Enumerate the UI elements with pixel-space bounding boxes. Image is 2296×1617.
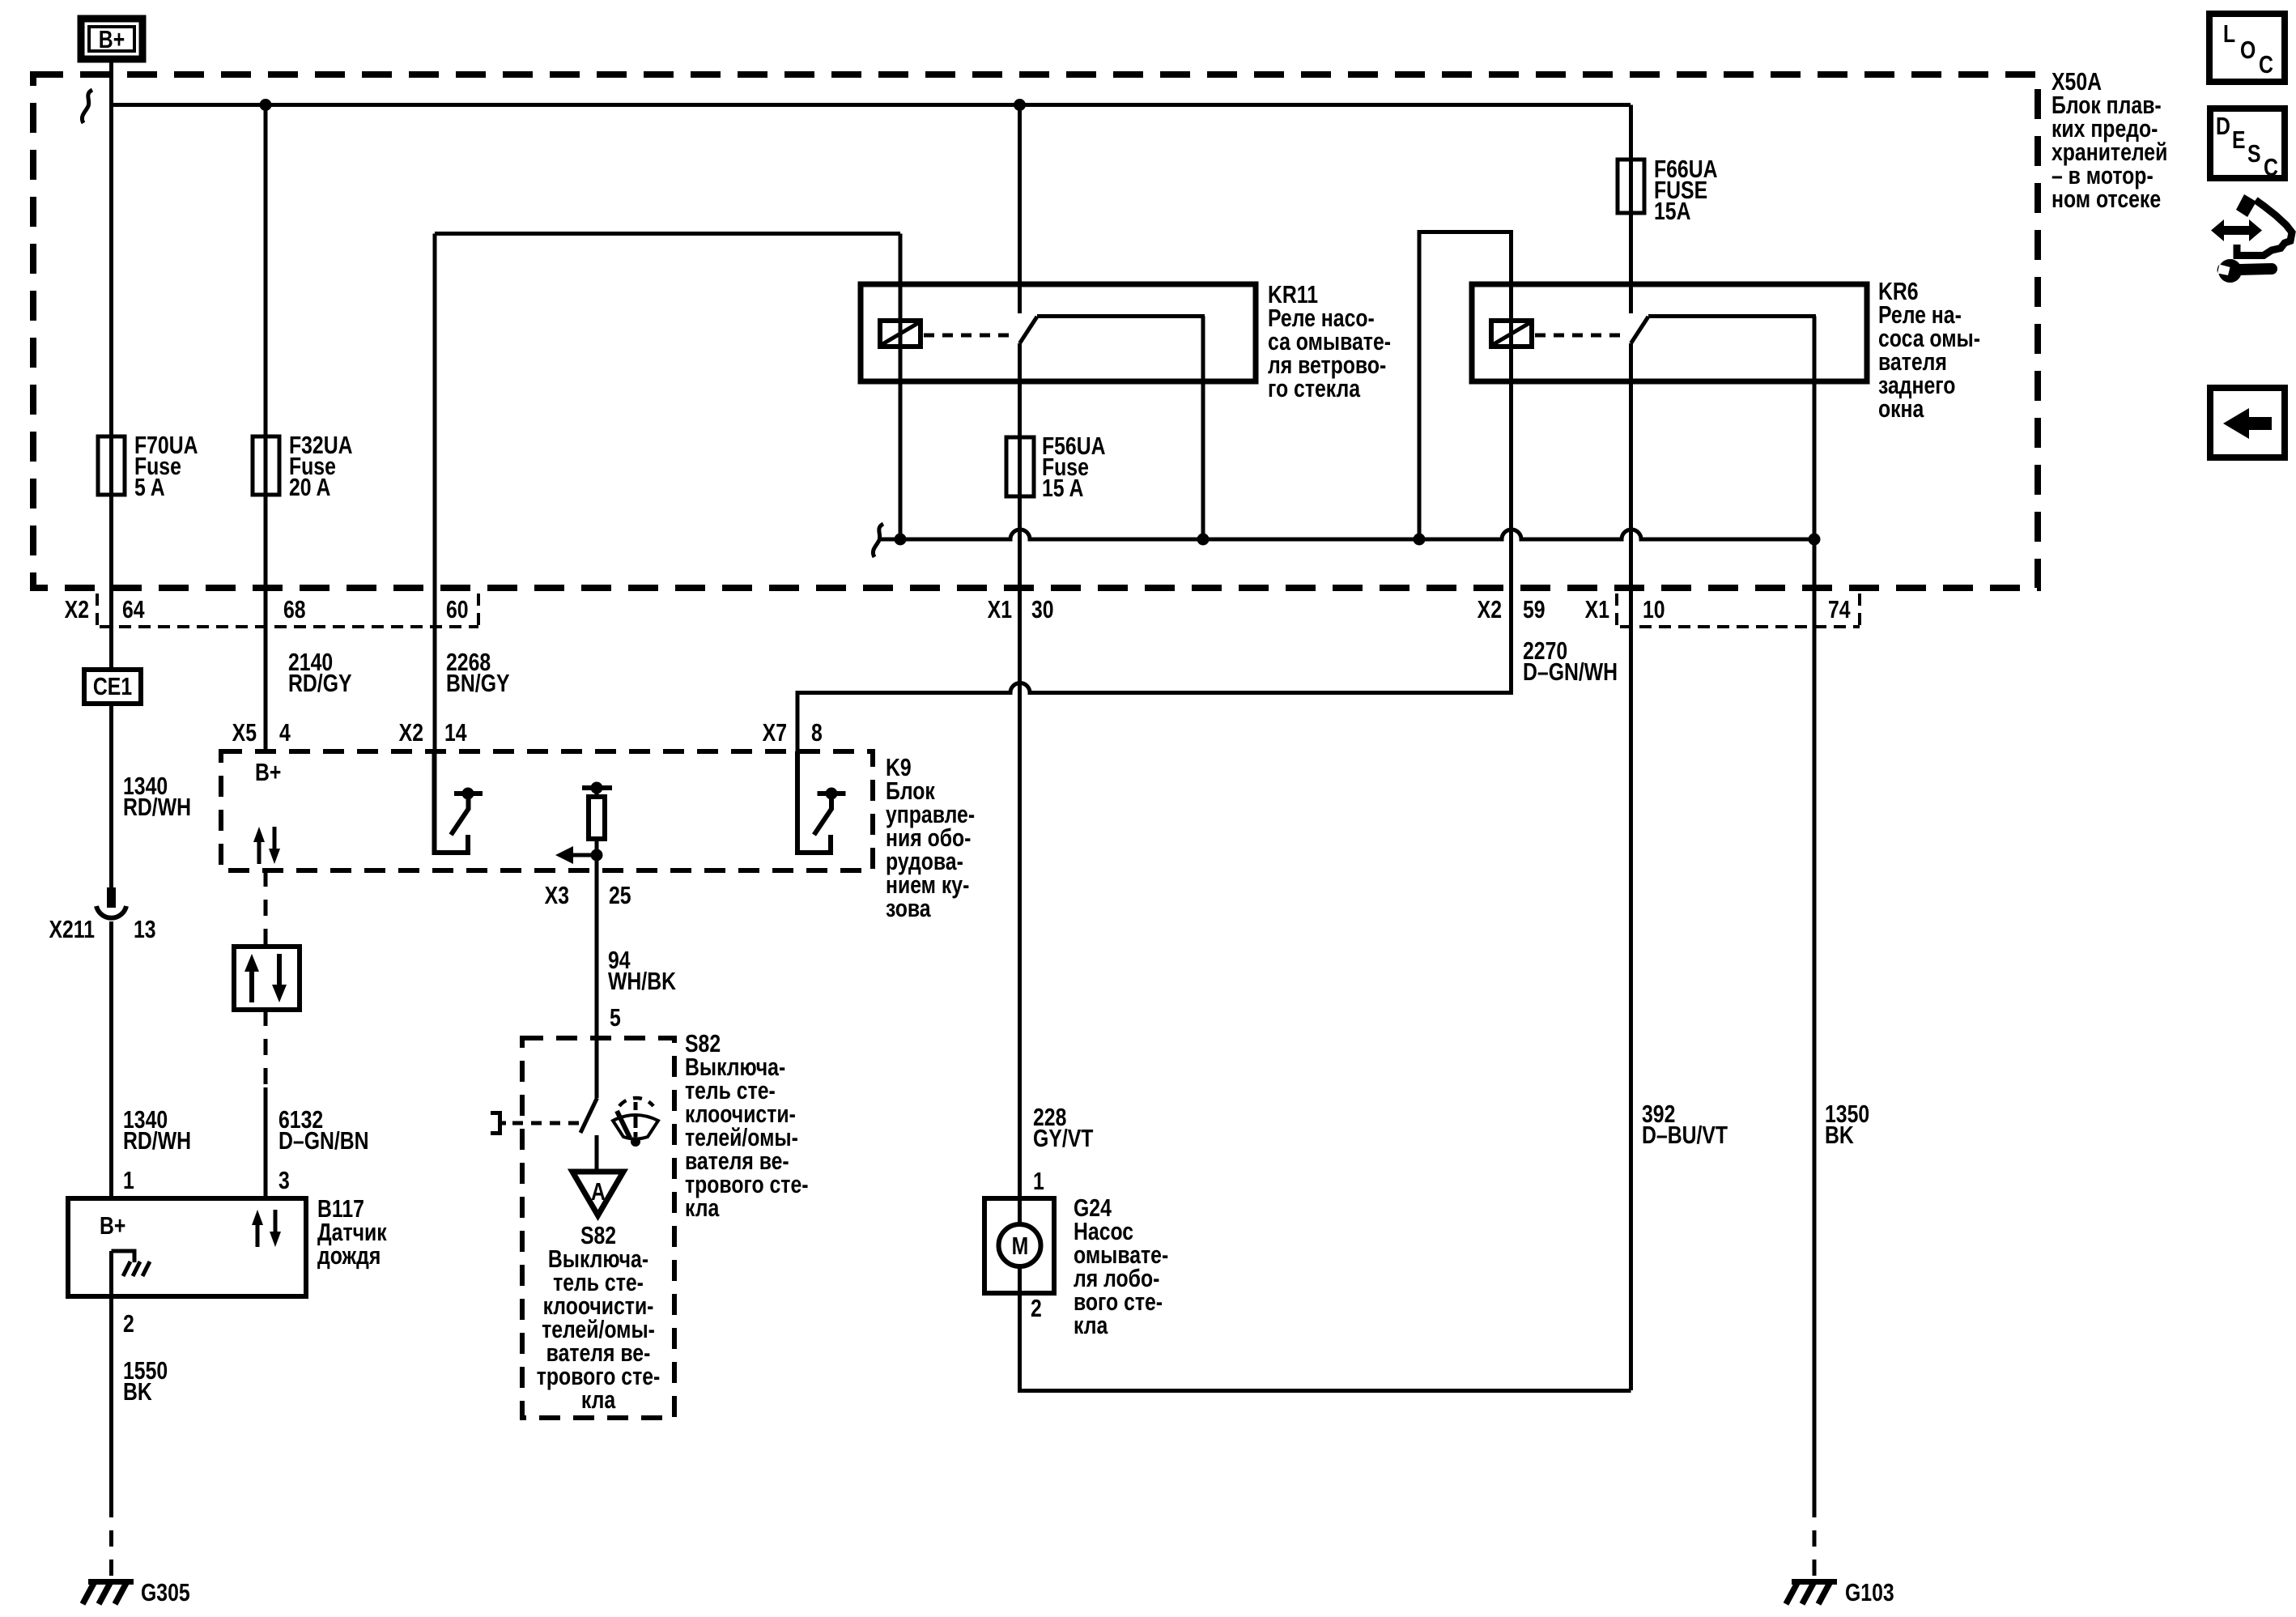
power symbol B+: [81, 19, 142, 59]
terminal label X2 14: [399, 718, 467, 746]
svg-text:зова: зова: [886, 894, 931, 921]
wire 2268 terminal 60 to K9 X2/14: [433, 234, 437, 752]
label wire 228 GY/VT: [1033, 1103, 1093, 1151]
wire B+ feed down left column: [109, 59, 113, 670]
KR6 switch blade: [1631, 317, 1649, 343]
S82 mechanical dashed link: [512, 1121, 580, 1126]
label wire 6132 D-GN/BN: [278, 1105, 369, 1154]
svg-text:X2: X2: [1478, 595, 1502, 623]
svg-text:5: 5: [610, 1003, 621, 1031]
K9 switch at X2/14: [435, 751, 483, 853]
svg-text:кла: кла: [1074, 1311, 1108, 1338]
S82 internal label: [537, 1221, 660, 1413]
svg-text:X2: X2: [399, 718, 423, 746]
svg-text:8: 8: [811, 718, 823, 746]
svg-text:C: C: [2264, 153, 2278, 181]
fuse F56UA: [1006, 437, 1034, 496]
wire F32UA branch to K9 X5/4: [264, 105, 268, 752]
terminal label 3: [278, 1166, 290, 1194]
bus wire with hops: [879, 530, 1814, 539]
wire 1350 terminal 74 to G103: [1813, 539, 1817, 1501]
wire 94 K9 X3/25 to S82: [595, 870, 599, 1098]
label wire 1340 RD/WH lower: [123, 1105, 191, 1154]
svg-text:RD/WH: RD/WH: [123, 1126, 191, 1154]
terminal label X211 13: [49, 915, 155, 943]
relay KR11 box: [861, 284, 1256, 381]
wiper washer icon: [613, 1098, 658, 1147]
terminal label 68: [283, 595, 306, 623]
svg-text:64: 64: [122, 595, 145, 623]
svg-text:2: 2: [1031, 1294, 1042, 1321]
svg-text:BN/GY: BN/GY: [446, 669, 510, 696]
label S82 switch description right: [685, 1029, 808, 1221]
svg-text:RD/GY: RD/GY: [288, 669, 352, 696]
svg-text:CE1: CE1: [93, 672, 132, 700]
junction power rail / KR11 switch: [1014, 99, 1026, 111]
label X50A fuse block description: [2052, 67, 2167, 212]
switch S82 dashed box: [522, 1038, 674, 1418]
junction KR11 output / bus: [1197, 534, 1210, 546]
svg-text:25: 25: [609, 881, 631, 908]
terminal label X1 30: [988, 595, 1054, 623]
svg-text:BK: BK: [123, 1377, 152, 1405]
svg-text:B+: B+: [255, 758, 281, 785]
wire 2270 KR6 coil to K9 X7/8: [797, 588, 1512, 751]
svg-text:15A: 15A: [1654, 197, 1690, 224]
ground G103: [1786, 1578, 1894, 1606]
svg-text:X1: X1: [1585, 595, 1609, 623]
terminal label X3 25: [545, 881, 631, 908]
label wire 1340 RD/WH upper: [123, 772, 191, 820]
wire 1550 dashed to G305: [109, 1501, 113, 1577]
S82 mechanical link mark: [491, 1113, 506, 1134]
B117 internal up/down arrows: [252, 1210, 281, 1247]
svg-text:X2: X2: [65, 595, 89, 623]
fuse F32UA: [253, 436, 279, 495]
K9 internal arrow left at X3 node: [555, 846, 603, 864]
svg-text:G103: G103: [1845, 1578, 1894, 1606]
coil KR11: [880, 321, 921, 347]
icon vehicle with arrow and wrench: [2211, 194, 2292, 283]
fuse block X50A dashed box: [33, 74, 2038, 588]
label K9 body control module: [886, 753, 975, 921]
svg-text:X211: X211: [49, 915, 95, 943]
rain sensor B117 box: [68, 1198, 306, 1296]
terminal label 2: [123, 1309, 134, 1337]
inline connector box with arrows: [234, 947, 300, 1010]
fuse F66UA: [1618, 160, 1644, 213]
terminal label X5 4: [232, 718, 291, 746]
svg-text:15 A: 15 A: [1042, 474, 1083, 501]
icon box LOC: [2209, 14, 2285, 82]
power rail B+: [109, 103, 1631, 107]
K9 internal up/down arrows: [253, 827, 280, 864]
svg-text:M: M: [1012, 1232, 1029, 1259]
svg-text:дождя: дождя: [317, 1241, 381, 1269]
wire X211 to B117 pin 1: [109, 921, 113, 1198]
KR11 coil-switch dashed link: [924, 334, 1014, 338]
svg-text:3: 3: [278, 1166, 290, 1194]
terminal label X1 10: [1585, 595, 1665, 623]
svg-text:окна: окна: [1878, 394, 1924, 422]
svg-text:кла: кла: [581, 1385, 616, 1413]
label wire 1350 BK: [1825, 1100, 1869, 1148]
svg-text:14: 14: [444, 718, 467, 746]
wire B117 pin 2 down: [109, 1251, 113, 1501]
relay KR6 box: [1472, 284, 1867, 381]
svg-text:BK: BK: [1825, 1121, 1854, 1148]
wire power rail to KR11 switch common: [1018, 105, 1022, 314]
terminal label 74: [1828, 595, 1851, 623]
circuit breaker CE1 box: [84, 670, 141, 704]
K9 resistor at X3/25: [582, 782, 612, 871]
ground G305: [83, 1578, 190, 1606]
svg-text:E: E: [2232, 126, 2246, 153]
connector strip underline left group: [100, 625, 478, 628]
label F70UA Fuse 5 A: [134, 431, 198, 500]
svg-text:D–GN/BN: D–GN/BN: [278, 1126, 369, 1154]
svg-text:4: 4: [279, 718, 291, 746]
wire 6132 dashed connector box to solid: [264, 1010, 268, 1087]
wire 6132 solid to B117 pin 3: [264, 1087, 268, 1198]
connector X211 symbol: [96, 887, 126, 918]
terminal label 2 G24: [1031, 1294, 1042, 1321]
B117 internal B+ label: [100, 1211, 125, 1239]
wire KR11 switch output to bus: [1201, 317, 1205, 540]
terminal label 1: [123, 1166, 134, 1194]
svg-text:C: C: [2259, 50, 2273, 78]
label wire 94 WH/BK: [608, 946, 676, 994]
label F32UA Fuse 20 A: [289, 431, 353, 500]
label wire 2140 RD/GY: [288, 648, 352, 696]
label G24 pump description: [1074, 1194, 1168, 1338]
svg-text:D: D: [2216, 112, 2230, 139]
svg-text:A: A: [591, 1177, 606, 1205]
KR6 coil-switch dashed link: [1535, 334, 1625, 338]
svg-text:30: 30: [1031, 595, 1054, 623]
wire G24 pin 2 to 392 riser: [1020, 1293, 1631, 1391]
washer pump motor G24: [984, 1198, 1054, 1293]
KR11 switch blade: [1020, 317, 1038, 343]
wire KR11 coil vertical: [899, 234, 903, 540]
junction power rail / F32UA: [260, 99, 272, 111]
svg-text:O: O: [2240, 36, 2256, 63]
wire CE1 to X211: [109, 704, 113, 887]
wire 1350 dashed to G103: [1813, 1501, 1817, 1577]
label B117 rain sensor: [317, 1194, 387, 1269]
wire terminal 60 rail to KR11 coil: [435, 232, 900, 236]
svg-text:S: S: [2247, 139, 2261, 167]
svg-text:60: 60: [446, 595, 469, 623]
terminal label 5: [610, 1003, 621, 1031]
B117 internal ground: [112, 1251, 151, 1276]
svg-text:L: L: [2223, 19, 2235, 47]
connector X1 notch right separator: [1858, 594, 1861, 627]
connector X1 notch left separator: [1615, 594, 1618, 627]
svg-text:1: 1: [123, 1166, 134, 1194]
KR11 switch fixed contact: [1037, 314, 1205, 318]
svg-text:59: 59: [1523, 595, 1546, 623]
label KR11 relay description: [1268, 280, 1391, 402]
svg-text:X7: X7: [763, 718, 787, 746]
label F56UA Fuse 15 A: [1042, 432, 1106, 501]
junction bus / KR6 coil feed: [1414, 534, 1426, 546]
svg-text:5 A: 5 A: [134, 473, 165, 500]
junction KR6 output / bus: [1809, 534, 1821, 546]
wire KR6 switch common to X1/10 and 392 run: [1629, 343, 1633, 1390]
svg-text:X5: X5: [232, 718, 257, 746]
svg-text:B+: B+: [100, 1211, 125, 1239]
coil KR6: [1491, 321, 1532, 347]
wire 6132 dashed K9 to connector box: [264, 870, 268, 947]
svg-text:X3: X3: [545, 881, 569, 908]
label wire 392 D-BU/VT: [1642, 1100, 1728, 1148]
junction bus / KR11 coil: [895, 534, 907, 546]
label wire 2270 D-GN/WH: [1523, 636, 1618, 685]
svg-text:20 A: 20 A: [289, 473, 330, 500]
wire bus to KR6 coil: [1419, 232, 1512, 589]
terminal label X2 59: [1478, 595, 1546, 623]
terminal label X2 64: [65, 595, 145, 623]
KR6 switch fixed contact: [1648, 314, 1816, 318]
svg-text:G305: G305: [141, 1578, 190, 1606]
continuation mark on power rail: [82, 90, 92, 123]
label KR6 relay description: [1878, 277, 1980, 422]
svg-text:WH/BK: WH/BK: [608, 967, 676, 994]
icon box back arrow: [2210, 388, 2285, 457]
connector strip X2 separator dash: [96, 594, 99, 627]
svg-text:RD/WH: RD/WH: [123, 793, 191, 820]
svg-text:кла: кла: [685, 1194, 720, 1221]
svg-text:D–GN/WH: D–GN/WH: [1523, 657, 1618, 685]
label wire 2268 BN/GY: [446, 648, 510, 696]
terminal label X7 8: [763, 718, 823, 746]
connector strip separator after 60: [477, 594, 480, 627]
svg-text:1: 1: [1033, 1167, 1044, 1194]
wire S82 blade to gauge A: [595, 1135, 599, 1172]
terminal label 60: [446, 595, 469, 623]
icon box DESC: [2210, 109, 2285, 181]
svg-text:2: 2: [123, 1309, 134, 1337]
svg-text:го стекла: го стекла: [1268, 374, 1360, 402]
svg-text:ном отсеке: ном отсеке: [2052, 185, 2161, 212]
ECU K9 dashed box: [221, 751, 873, 870]
wire KR6 switch output to bus: [1813, 317, 1817, 540]
S82 switch blade: [580, 1098, 597, 1133]
svg-text:X1: X1: [988, 595, 1012, 623]
wire KR11 switch common to X1/30 to G24 pin 1: [1018, 343, 1022, 1198]
svg-text:10: 10: [1643, 595, 1665, 623]
label F66UA FUSE 15A: [1654, 155, 1718, 224]
svg-text:68: 68: [283, 595, 306, 623]
K9 internal B+ label: [255, 758, 281, 785]
svg-text:B+: B+: [99, 25, 125, 53]
svg-text:74: 74: [1828, 595, 1851, 623]
label wire 1550 BK: [123, 1356, 168, 1405]
wire power rail to KR6 switch common: [1629, 105, 1633, 314]
K9 switch at X7/8: [797, 751, 846, 853]
connector X1 notch underline: [1620, 625, 1860, 628]
svg-text:GY/VT: GY/VT: [1033, 1124, 1093, 1151]
terminal label 1 G24: [1033, 1167, 1044, 1194]
fuse F70UA: [98, 436, 125, 495]
continuation mark bus left end: [873, 524, 883, 557]
svg-text:D–BU/VT: D–BU/VT: [1642, 1121, 1728, 1148]
svg-text:13: 13: [134, 915, 156, 943]
gauge symbol A triangle: [572, 1172, 623, 1215]
